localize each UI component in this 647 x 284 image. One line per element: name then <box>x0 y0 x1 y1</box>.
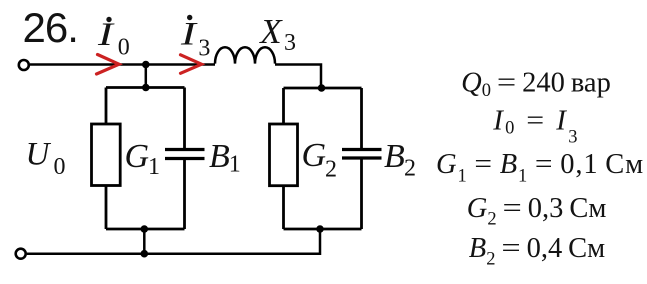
svg-text:G: G <box>125 138 150 175</box>
svg-text:2: 2 <box>404 156 416 182</box>
svg-text:3: 3 <box>284 30 296 56</box>
svg-text:I: I <box>180 16 198 52</box>
svg-text:0: 0 <box>54 154 66 180</box>
svg-text:G2 = 0,3 См: G2 = 0,3 См <box>467 193 607 230</box>
svg-text:B: B <box>209 138 230 175</box>
svg-text:1: 1 <box>229 152 241 178</box>
svg-text:I0 = I3: I0 = I3 <box>492 105 580 148</box>
svg-text:G: G <box>302 137 327 174</box>
svg-text:U: U <box>26 136 52 172</box>
svg-text:B: B <box>384 138 405 175</box>
svg-text:3: 3 <box>198 36 210 62</box>
svg-text:G1 = B1 = 0,1 См: G1 = B1 = 0,1 См <box>436 149 644 187</box>
svg-text:X: X <box>258 12 283 51</box>
svg-text:I: I <box>97 16 115 52</box>
svg-text:1: 1 <box>148 154 160 180</box>
svg-text:B2 = 0,4 См: B2 = 0,4 См <box>469 233 605 270</box>
svg-text:26.: 26. <box>23 4 78 51</box>
svg-text:0: 0 <box>118 35 130 61</box>
svg-text:2: 2 <box>325 157 337 183</box>
svg-text:Q0 = 240 вар: Q0 = 240 вар <box>461 68 611 102</box>
